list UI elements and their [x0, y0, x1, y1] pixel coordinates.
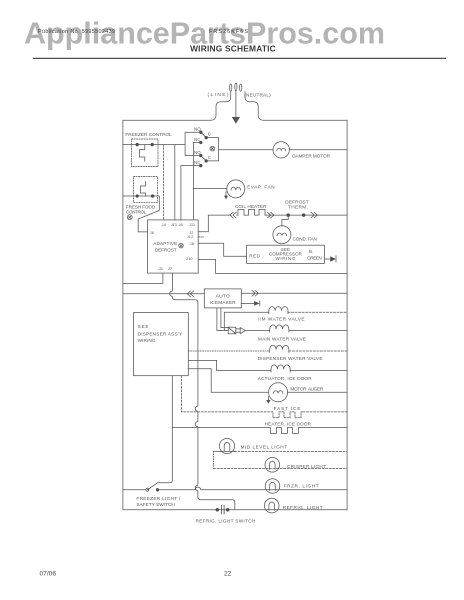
dispenser assembly box [133, 313, 188, 376]
svg-text:THERM.: THERM. [288, 205, 308, 210]
wire NC2 to board J8 [181, 166, 201, 220]
svg-text:FAST ICE: FAST ICE [274, 406, 301, 411]
switch SW1 contacts [200, 131, 203, 134]
wire branch to I/M water valve [224, 312, 268, 330]
fresh food control contacts [136, 195, 139, 198]
svg-text:FREEZER CONTROL: FREEZER CONTROL [125, 132, 172, 137]
dotted wire dispenser box to dispenser valve [188, 350, 269, 352]
ground arrow [233, 117, 240, 123]
freezer control sensor step [140, 145, 145, 161]
wire heater to right edge [300, 427, 347, 429]
svg-text:MOTOR AUGER: MOTOR AUGER [290, 386, 324, 391]
svg-text:REFRIG. LIGHT: REFRIG. LIGHT [283, 505, 323, 510]
switch SW2 contacts [200, 154, 203, 157]
svg-text:07/06: 07/06 [40, 571, 57, 578]
freezer light wire with hop to right edge [158, 487, 348, 490]
wire NC1 to evap fan node [193, 143, 200, 220]
switch SW2 lever [201, 156, 206, 161]
outer box right edge [346, 120, 348, 510]
coil heater element [237, 210, 267, 216]
main water valve coil [270, 325, 289, 332]
dashed wire dispenser valve to right edge [289, 350, 347, 352]
power cord prong right [240, 84, 242, 91]
compressor box [247, 245, 325, 263]
wire damper motor to right edge [289, 149, 347, 151]
evap fan arrow [225, 192, 227, 197]
wire defrost therm to cond fan [282, 215, 288, 226]
crisper light lamp [265, 458, 280, 473]
svg-text:J1: J1 [159, 266, 164, 271]
coil heater connector chevrons [230, 212, 236, 218]
wire dispenser box to ice door actuator [188, 360, 271, 370]
svg-text:NO: NO [194, 150, 201, 155]
freezer control dashed box [132, 139, 159, 167]
svg-text:J11: J11 [189, 222, 196, 227]
wire to damper motor [219, 149, 274, 151]
refrig light switch bars [222, 505, 225, 513]
svg-text:22: 22 [224, 571, 232, 578]
svg-text:CONTROL: CONTROL [126, 209, 147, 214]
freezer light lamp [265, 479, 280, 494]
pin labels board top [150, 222, 196, 271]
svg-text:WIRING SCHEMATIC: WIRING SCHEMATIC [190, 44, 276, 54]
connector chevrons right of coil heater [268, 212, 274, 218]
trunk safety switch vertical [158, 376, 173, 483]
wire plug to main water valve [245, 330, 269, 332]
svg-text:J10: J10 [186, 256, 193, 261]
evap fan winding [231, 187, 241, 190]
svg-text:J6: J6 [150, 230, 155, 235]
svg-text:(LINE): (LINE) [208, 92, 229, 97]
svg-text:REFRIG. LIGHT SWITCH: REFRIG. LIGHT SWITCH [196, 519, 256, 524]
fresh food control dashed box [133, 177, 157, 203]
mid level light lamp [219, 438, 234, 453]
actuator ice door coil [271, 365, 290, 372]
svg-text:C: C [208, 155, 211, 160]
svg-text:MAIN WATER VALVE: MAIN WATER VALVE [258, 336, 306, 341]
evap fan circle [227, 180, 245, 198]
header rule [33, 57, 446, 59]
wire dispenser box to auger motor [188, 369, 268, 393]
wire heater ice door [172, 427, 268, 429]
connector chevrons before icemaker [187, 291, 193, 297]
adaptive defrost connector circle-x [179, 243, 184, 248]
auto icemaker box [204, 289, 241, 308]
svg-text:J13: J13 [171, 222, 178, 227]
defrost thermostat contacts [287, 214, 290, 217]
icemaker water valve wires down [217, 308, 228, 331]
svg-text:SAFETY SWITCH: SAFETY SWITCH [136, 502, 175, 507]
green arrow out of compressor box [324, 258, 330, 260]
svg-text:ADAPTIVE: ADAPTIVE [153, 241, 177, 246]
wire icemaker to right edge [241, 292, 347, 294]
svg-text:HEATER, ICE DOOR: HEATER, ICE DOOR [265, 422, 312, 427]
outer box top edge left segment with cord curve [123, 92, 231, 120]
I/M water valve coil [269, 307, 288, 314]
svg-text:NC: NC [194, 160, 201, 165]
wire auger to right edge [288, 391, 348, 393]
svg-text:NC: NC [194, 137, 201, 142]
refrig light switch contacts [216, 508, 219, 511]
svg-text:FRS26KF6S: FRS26KF6S [209, 29, 248, 35]
svg-text:J7: J7 [168, 266, 173, 271]
wire main water valve to right edge [289, 330, 347, 332]
svg-text:DAMPER MOTOR: DAMPER MOTOR [292, 153, 331, 158]
fresh food connector circle-x [127, 215, 132, 220]
outer box top edge right segment with cord curve [245, 92, 347, 120]
dashed wire I/M valve to right edge [288, 311, 347, 313]
connector chevrons after icemaker [252, 291, 258, 297]
svg-text:J4: J4 [162, 222, 167, 227]
svg-text:FRZR. LIGHT: FRZR. LIGHT [284, 484, 319, 489]
svg-text:WIRING: WIRING [276, 256, 296, 261]
outer box bottom edge / refrig light wire [123, 509, 347, 511]
svg-text:MID LEVEL LIGHT: MID LEVEL LIGHT [241, 445, 288, 450]
inline plug connector [228, 327, 245, 334]
power cord prong center [235, 83, 237, 90]
wire J9 to compressor red [198, 243, 246, 256]
svg-text:(NEUTRAL): (NEUTRAL) [244, 93, 271, 98]
svg-text:I/M WATER VALVE: I/M WATER VALVE [258, 316, 305, 321]
connector symbol circle-x [210, 146, 215, 151]
cond fan winding [277, 233, 287, 236]
wire J13 vertical [174, 145, 176, 220]
svg-text:J12: J12 [187, 234, 194, 239]
icemaker supply wire from left edge [123, 293, 204, 295]
wire fresh food control to board J6 [138, 196, 159, 232]
svg-text:WIRING: WIRING [138, 338, 156, 343]
mid level light wire solid [214, 450, 235, 452]
icemaker fill tube wire with arrow [241, 302, 254, 304]
dashed wire fast ice to right edge [303, 411, 347, 413]
damper motor winding [277, 148, 286, 151]
wire evap fan [193, 188, 227, 190]
ground wire [235, 91, 237, 117]
svg-text:EVAP. FAN: EVAP. FAN [247, 184, 275, 189]
wire J1 to left edge [123, 273, 163, 283]
svg-text:ACTUATOR, ICE DOOR: ACTUATOR, ICE DOOR [258, 376, 313, 381]
freezer control thermostat contacts [136, 143, 139, 146]
mid level light wire dashed to right edge [235, 450, 348, 452]
svg-text:ICEMAKER: ICEMAKER [210, 300, 237, 305]
power cord prong left [230, 84, 232, 91]
motor auger arrow [267, 397, 269, 402]
defrost circuit wire [267, 214, 348, 216]
svg-text:COND. FAN: COND. FAN [293, 236, 318, 241]
freezer light safety switch pivot [146, 488, 149, 491]
svg-text:J8: J8 [190, 241, 195, 246]
svg-text:GREEN: GREEN [307, 255, 322, 260]
svg-text:COIL HEATER: COIL HEATER [235, 204, 267, 209]
dotted link mid to crisper [213, 451, 215, 468]
freezer light safety switch lever [147, 483, 157, 490]
cond fan circle [273, 226, 291, 244]
wire stub J12 [198, 236, 204, 238]
dashed fast ice wire down from dispenser box [181, 376, 271, 412]
svg-text:FREEZER LIGHT /: FREEZER LIGHT / [136, 496, 181, 501]
svg-text:NO: NO [194, 127, 201, 132]
wire C1-C2 loop [206, 138, 218, 161]
svg-text:J8: J8 [178, 222, 183, 227]
svg-text:C: C [208, 132, 211, 137]
refrig light lamp [264, 498, 279, 513]
dispenser water valve coil [270, 345, 289, 352]
switch SW1 lever [201, 132, 206, 137]
motor auger circle [269, 383, 288, 402]
wire J2 to coil heater [198, 215, 231, 232]
wire left edge to fresh food control [123, 195, 153, 197]
freezer light wire from left edge [123, 489, 146, 491]
switch rail NO1-NO2 [185, 132, 201, 155]
outer box left edge [122, 120, 124, 510]
motor auger winding [273, 391, 283, 394]
fresh food control sensor step [141, 182, 146, 197]
svg-text:DISPENSER WATER VALVE: DISPENSER WATER VALVE [258, 356, 323, 361]
svg-text:CRISPER LIGHT: CRISPER LIGHT [287, 464, 326, 469]
adaptive defrost board U1 [148, 220, 199, 273]
wire J7 trunk with hop and corners [170, 273, 235, 510]
svg-text:RED: RED [249, 254, 260, 259]
connector chevrons after defrost thermostat [311, 212, 317, 218]
svg-text:DISPENSER ASS'Y: DISPENSER ASS'Y [138, 331, 183, 336]
wire J4 dashed freezer control to board [163, 145, 165, 220]
damper motor circle [273, 142, 289, 158]
svg-text:B.: B. [309, 249, 313, 254]
svg-text:SEE: SEE [138, 324, 149, 329]
wire left edge to freezer control and switch rail [123, 144, 185, 146]
fast ice heater dashed [271, 412, 303, 418]
wire J10 to right edge [198, 259, 347, 273]
crisper light wire dashed [214, 467, 348, 469]
wire actuator to right edge [290, 370, 347, 372]
svg-text:AUTO: AUTO [216, 294, 230, 299]
svg-text:Publication No. 5995502439: Publication No. 5995502439 [38, 29, 115, 35]
heater ice door element [268, 428, 300, 434]
svg-text:DEFROST: DEFROST [155, 247, 177, 252]
